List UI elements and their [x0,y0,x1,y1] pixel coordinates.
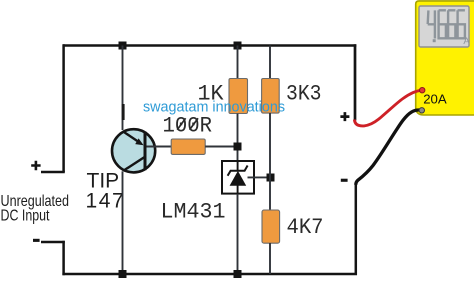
wire: left bottom drop [62,241,65,275]
junction: collector on bottom rail [119,270,127,278]
svg-text:20A: 20A [423,91,447,106]
wire: top rail [63,44,356,47]
wire: 3K3 top lead [269,46,271,80]
svg-text:100R: 100R [163,113,213,138]
junction: top of 1K on top rail [234,42,242,50]
label + (output) [340,112,349,121]
wire: output minus rail [355,183,358,275]
wire: bottom rail [62,273,357,276]
svg-text:LM431: LM431 [161,199,226,224]
wire: 1K bottom lead to LM431 [237,114,239,162]
svg-text:3K3: 3K3 [286,82,322,107]
wire: ref lead [248,176,271,178]
LCD digit 4 [428,10,435,38]
resistor R1 100R [171,139,205,154]
wire: left input rail [62,44,65,172]
transistor Q1 TIP147 (PNP) [112,129,155,172]
wire: 1K top lead [237,46,239,80]
wire: 4K7 bottom lead [269,243,271,274]
svg-text:4K7: 4K7 [287,215,324,240]
junction: base drive node [234,143,242,151]
junction: emitter node on top rail [119,42,127,50]
ammeter LCD display [419,6,469,47]
LCD digit 6 (second) [448,10,455,38]
junction: ref node on divider [267,174,275,182]
terminal: black probe dot [419,108,424,113]
svg-text:DC Input: DC Input [1,207,50,224]
wire: red probe lead [354,90,421,126]
wire: 100R to node [205,146,234,148]
svg-text:147: 147 [86,189,126,212]
LCD decimal point [433,39,436,42]
wire: divider middle [269,113,271,211]
resistor R4 4K7 [262,210,280,243]
shunt regulator U1 LM431 [222,161,254,194]
wire: emitter lead [122,46,124,131]
LCD digit 6 (third) [458,10,465,38]
wire: collector lead [122,171,124,274]
label - (input) [33,239,40,242]
wire: minus input stub [41,241,65,244]
resistor R2 1K [229,79,248,114]
ammeter M1 body [416,1,474,115]
wire: LM431 anode lead [237,194,239,274]
label - (output) [341,179,348,182]
wire: output plus drop [354,44,357,120]
svg-text:A: A [463,36,470,47]
junction: LM431 anode on bottom rail [234,270,242,278]
LCD digit 6 (first) [439,10,446,38]
label + (input) [31,161,40,170]
wire: black probe lead [356,110,422,185]
terminal: red probe dot [420,88,425,93]
wire: base lead [147,146,172,148]
wire: plus input stub [41,171,65,174]
svg-text:swagatam innovations: swagatam innovations [143,99,285,116]
resistor R3 3K3 [262,79,280,114]
